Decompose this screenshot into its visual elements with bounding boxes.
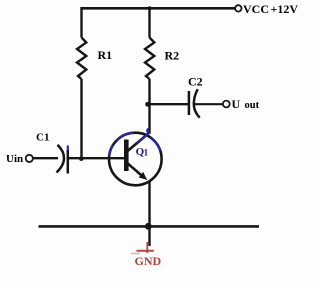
svg-text:R1: R1 <box>98 48 113 62</box>
svg-text:U: U <box>232 97 241 111</box>
svg-text:Uin: Uin <box>6 153 23 165</box>
svg-text:+12V: +12V <box>271 2 299 16</box>
svg-text:1: 1 <box>144 148 149 158</box>
svg-text:VCC: VCC <box>243 2 269 16</box>
svg-text:C2: C2 <box>188 75 203 89</box>
svg-text:R2: R2 <box>165 49 180 63</box>
svg-text:out: out <box>245 100 260 111</box>
svg-text:C1: C1 <box>36 131 49 143</box>
svg-text:GND: GND <box>135 254 162 268</box>
